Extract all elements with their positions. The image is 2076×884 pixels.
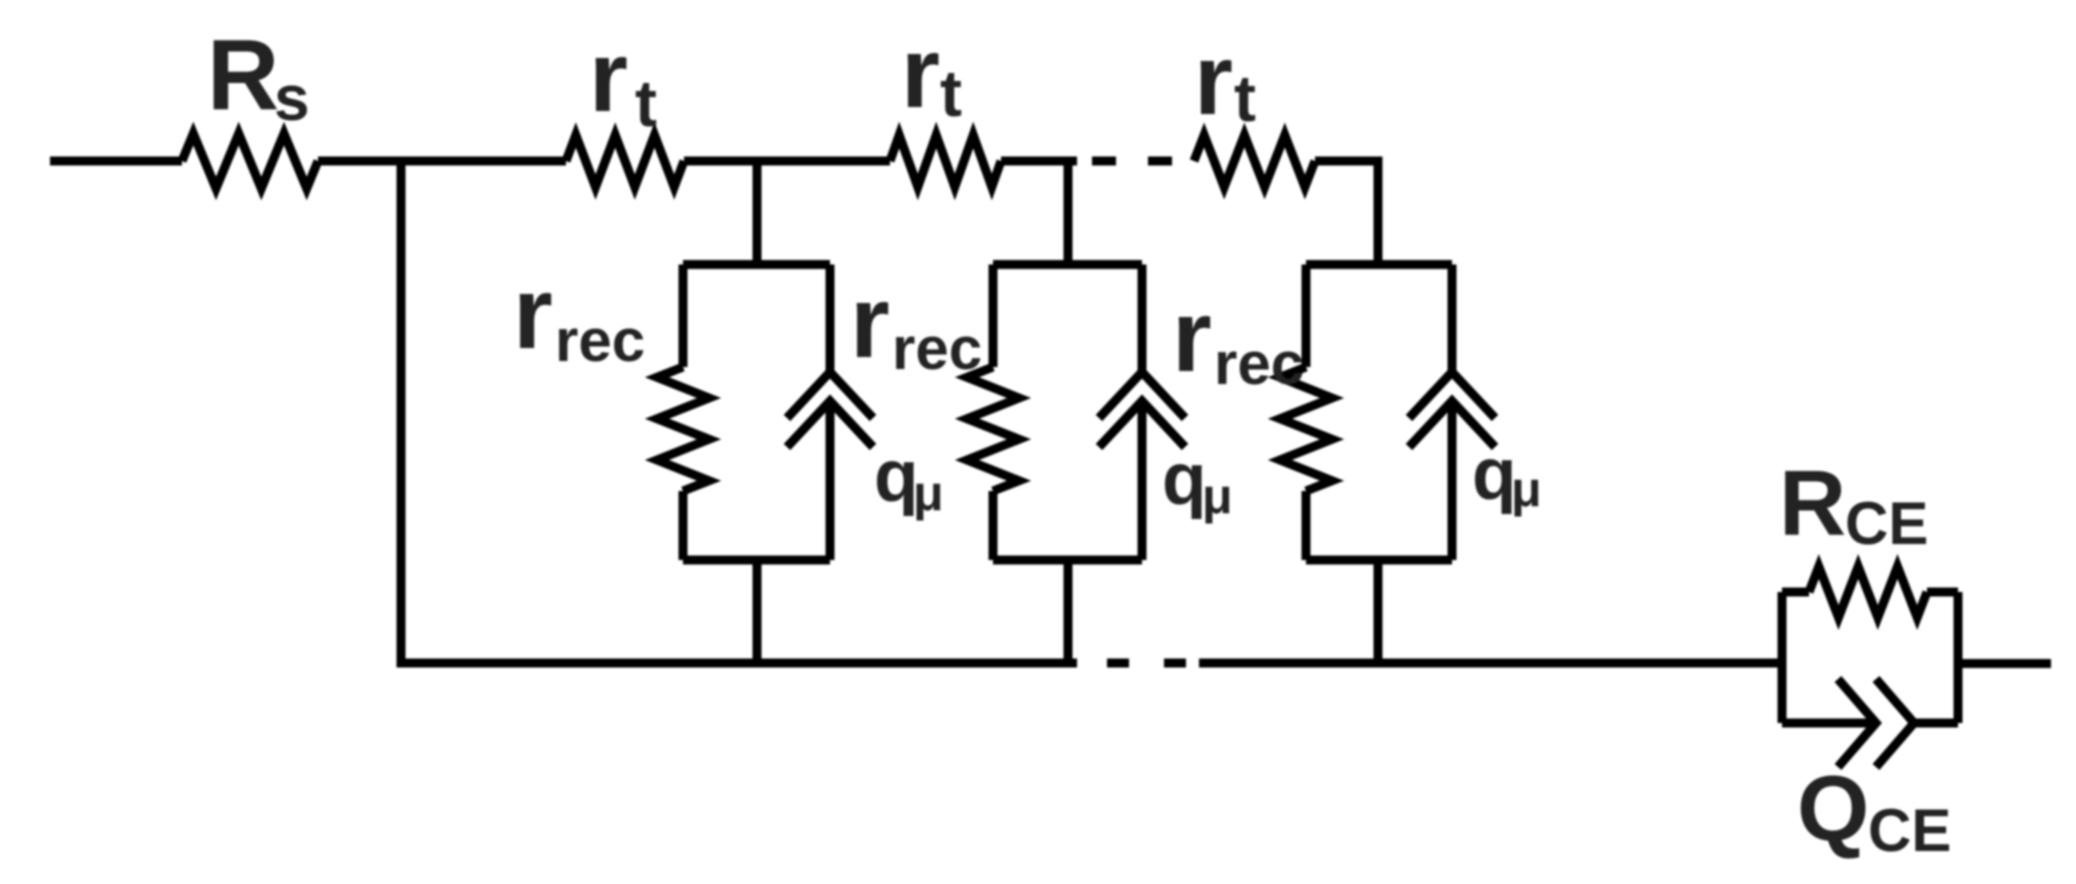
wire stub node 1 top: [753, 161, 762, 269]
wire stub node 2 top: [1064, 161, 1073, 269]
svg-text:t: t: [635, 66, 657, 140]
RC box 3 bottom edge: [1306, 556, 1452, 565]
wire bottom rail right: [1199, 659, 1782, 668]
RC box 1 bottom edge: [683, 556, 830, 565]
CPE q_mu 2 lower lead: [1138, 401, 1147, 560]
resistor r_rec 1: [657, 367, 709, 491]
RC box 2 right edge upper: [1138, 265, 1147, 373]
RC box 1 left edge lower: [679, 491, 688, 560]
resistor rt2: [890, 135, 1001, 187]
CPE q_mu 1 chevron 1: [787, 372, 873, 418]
svg-text:r: r: [1194, 24, 1233, 136]
CPE Q_CE chevron 1: [1838, 679, 1876, 767]
svg-text:CE: CE: [1868, 797, 1951, 864]
wire stub node 3 bottom: [1374, 560, 1383, 663]
R_CE top branch left lead: [1782, 588, 1809, 597]
RC box 3 top edge: [1306, 260, 1452, 269]
svg-text:μ: μ: [1202, 468, 1233, 524]
wire bottom rail left: [397, 659, 1078, 668]
wire right terminal: [1958, 659, 2051, 668]
resistor R_CE: [1809, 567, 1927, 618]
svg-text:rec: rec: [555, 307, 645, 374]
svg-text:rec: rec: [1214, 330, 1304, 397]
svg-text:r: r: [1172, 279, 1212, 393]
wire Rs to rt1: [318, 157, 566, 166]
wire rt1 to rt2: [684, 157, 890, 166]
resistor rt3: [1194, 135, 1315, 187]
R_CE top branch right lead: [1927, 588, 1958, 597]
svg-text:t: t: [940, 56, 962, 130]
wire stub node 1 bottom: [753, 560, 762, 663]
RC box 1 left edge upper: [679, 265, 688, 368]
svg-text:R: R: [1779, 451, 1846, 555]
resistor r_rec 2: [967, 367, 1019, 491]
CPE q_mu 3 chevron 2: [1409, 401, 1495, 447]
wire rt3 to node 3: [1315, 161, 1378, 269]
svg-text:μ: μ: [1511, 461, 1542, 517]
wire left shunt branch: [397, 161, 406, 668]
CPE q_mu 3 lower lead: [1448, 401, 1457, 560]
svg-text:CE: CE: [1845, 490, 1928, 557]
CPE q_mu 2 chevron 1: [1099, 372, 1185, 418]
CPE q_mu 1 chevron 2: [787, 401, 873, 447]
RC box 2 left edge upper: [989, 265, 998, 368]
RC box 2 top edge: [993, 260, 1142, 269]
wire stub node 2 bottom: [1064, 560, 1073, 663]
svg-text:t: t: [1234, 61, 1256, 135]
Q_CE bottom branch left lead: [1782, 719, 1876, 728]
RC box 1 right edge upper: [826, 265, 835, 373]
wire bottom dash 2: [1164, 659, 1186, 668]
RC box 3 left edge upper: [1302, 265, 1311, 368]
R_CE Q_CE right bracket: [1954, 592, 1963, 723]
RC box 3 left edge lower: [1302, 491, 1311, 560]
CPE q_mu 1 lower lead: [826, 401, 835, 560]
wire left terminal: [50, 157, 182, 166]
Q_CE bottom branch right lead: [1914, 719, 1958, 728]
wire rt2 to node 2: [1001, 157, 1077, 166]
resistor rt1: [566, 135, 684, 187]
svg-text:r: r: [850, 265, 890, 379]
svg-text:q: q: [1162, 439, 1207, 520]
CPE q_mu 2 chevron 2: [1099, 401, 1185, 447]
resistor r_rec 3: [1280, 367, 1332, 491]
svg-text:R: R: [207, 19, 279, 131]
svg-text:μ: μ: [913, 465, 944, 521]
CPE q_mu 3 chevron 1: [1409, 372, 1495, 418]
svg-text:r: r: [901, 17, 940, 129]
RC box 2 bottom edge: [993, 556, 1142, 565]
svg-text:Q: Q: [1797, 756, 1869, 860]
svg-text:r: r: [513, 256, 553, 370]
RC box 3 right edge upper: [1448, 265, 1457, 373]
wire top dash 2: [1148, 157, 1172, 166]
resistor Rs: [182, 134, 318, 189]
wire top dash 1: [1092, 157, 1116, 166]
svg-text:rec: rec: [892, 315, 982, 382]
wire bottom dash 1: [1107, 659, 1129, 668]
RC box 1 top edge: [683, 260, 830, 269]
svg-text:q: q: [1472, 434, 1517, 515]
CPE Q_CE chevron 2: [1876, 679, 1914, 767]
svg-text:q: q: [874, 436, 919, 517]
svg-text:s: s: [274, 62, 310, 134]
R_CE Q_CE left bracket: [1778, 592, 1787, 723]
svg-text:r: r: [589, 21, 628, 133]
RC box 2 left edge lower: [989, 491, 998, 560]
